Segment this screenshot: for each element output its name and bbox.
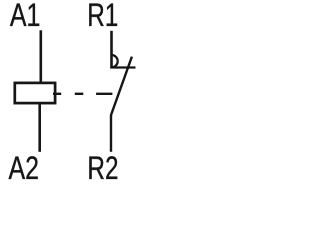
svg-text:R2: R2 [87, 151, 118, 187]
svg-text:A1: A1 [10, 0, 41, 34]
svg-text:A2: A2 [9, 151, 40, 187]
svg-text:R1: R1 [87, 0, 118, 34]
